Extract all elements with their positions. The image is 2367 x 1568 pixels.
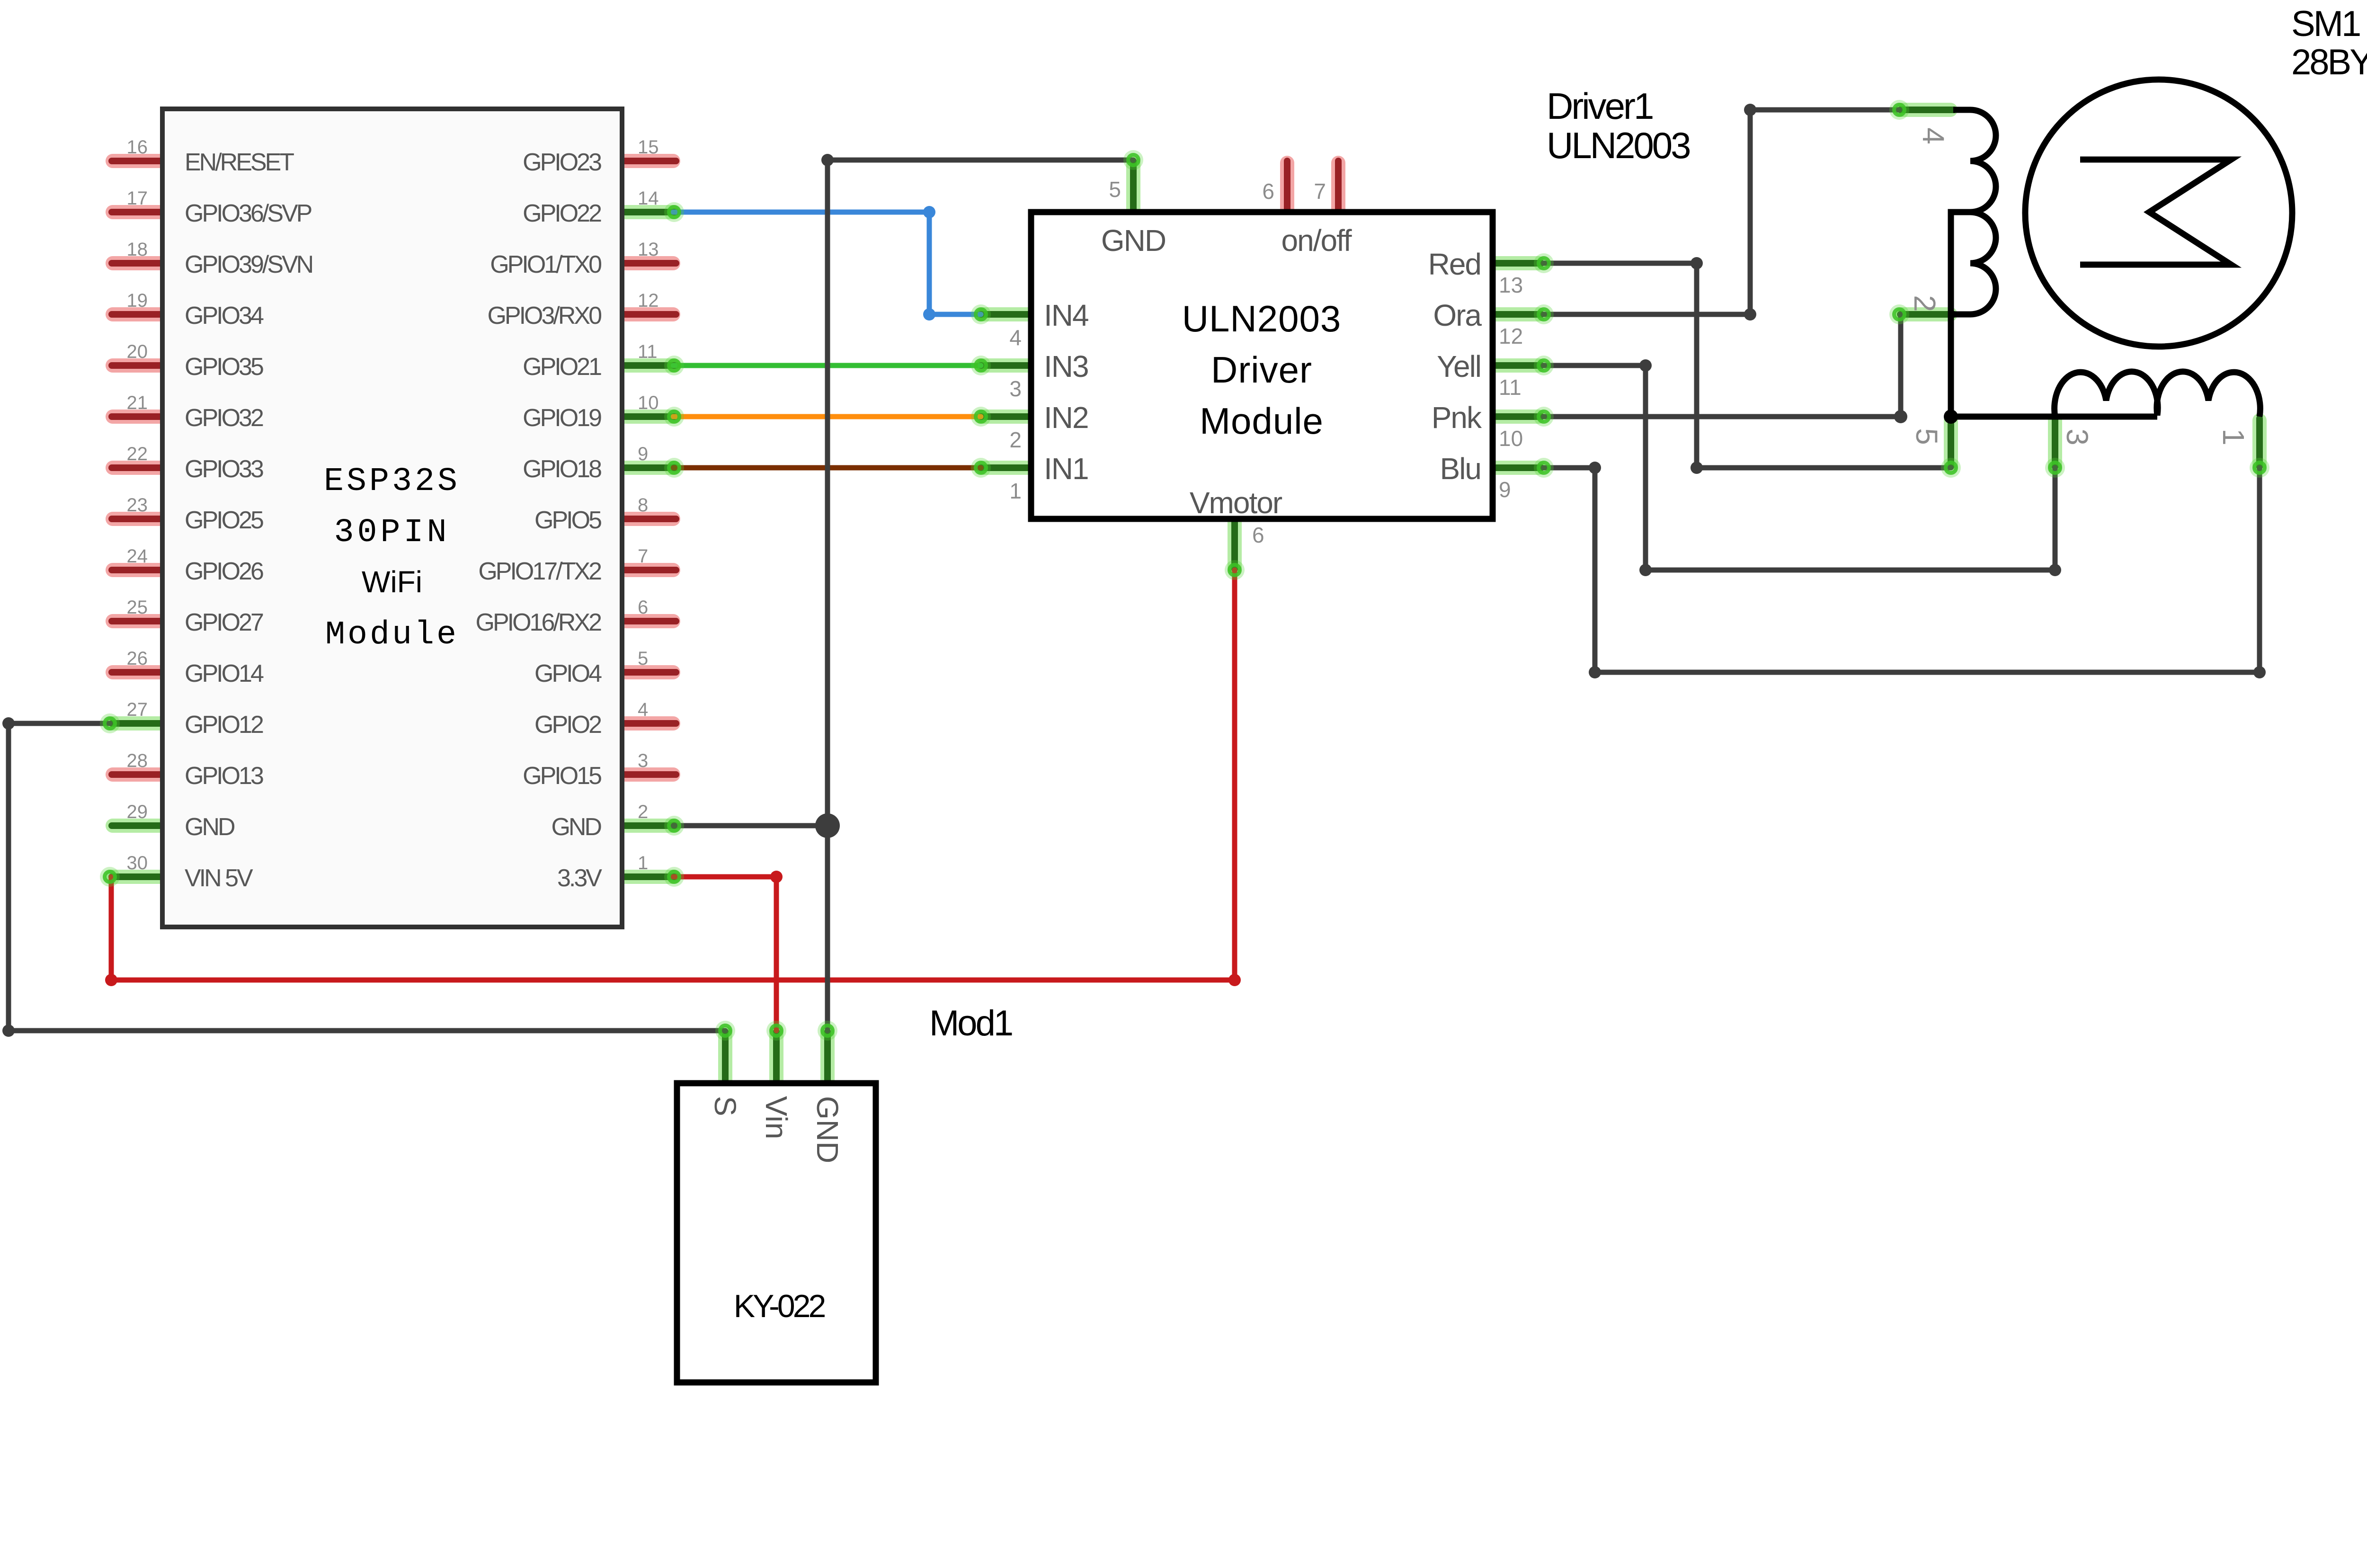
svg-text:IN1: IN1 bbox=[1044, 452, 1088, 486]
svg-text:10: 10 bbox=[1499, 426, 1523, 451]
ESP32 pin 24 GPIO26 stub bbox=[113, 563, 161, 577]
svg-text:3: 3 bbox=[1009, 376, 1022, 401]
ULN2003 pin numbers and labels bbox=[1009, 177, 1523, 547]
svg-text:11: 11 bbox=[1499, 375, 1522, 400]
ULN2003 pin 6 Vmotor stub bbox=[1228, 522, 1242, 567]
ESP32 pin 11 GPIO21 stub bbox=[624, 358, 673, 373]
svg-text:GPIO13: GPIO13 bbox=[185, 762, 263, 790]
svg-text:KY-022: KY-022 bbox=[734, 1288, 825, 1324]
wire ULN Blu(9) to motor pin 1 (gray) bbox=[1544, 462, 2266, 678]
connection point KY GND bbox=[818, 1021, 837, 1041]
motor SM1 pin 2 stub bbox=[1902, 307, 1950, 321]
svg-text:10: 10 bbox=[638, 392, 659, 413]
svg-text:GPIO14: GPIO14 bbox=[185, 660, 264, 687]
svg-text:9: 9 bbox=[1499, 477, 1511, 502]
ESP32 pin 20 GPIO35 stub bbox=[113, 358, 161, 373]
ESP32 pin 27 GPIO12 stub bbox=[113, 716, 161, 731]
svg-text:GPIO27: GPIO27 bbox=[185, 609, 263, 636]
svg-text:Red: Red bbox=[1428, 247, 1481, 281]
KY-022 pin Vin stub bbox=[769, 1033, 783, 1080]
ESP32 pin 19 GPIO34 stub bbox=[113, 307, 161, 321]
svg-text:GPIO19: GPIO19 bbox=[523, 404, 601, 432]
svg-text:SM1: SM1 bbox=[2291, 4, 2360, 44]
connection point ULN Vmotor bbox=[1225, 560, 1245, 580]
svg-text:15: 15 bbox=[638, 137, 659, 158]
connection points (green glow) bbox=[100, 100, 2269, 1041]
module Mod1 KY-022 body bbox=[677, 1083, 876, 1382]
ULN2003 pin 3 IN3 stub bbox=[984, 358, 1028, 373]
svg-text:GPIO21: GPIO21 bbox=[523, 353, 601, 381]
ESP32 pin 14 GPIO22 stub bbox=[624, 205, 673, 219]
motor pin number labels bbox=[1908, 127, 2251, 445]
svg-text:Ora: Ora bbox=[1433, 298, 1482, 332]
svg-text:GPIO39/SVN: GPIO39/SVN bbox=[185, 251, 312, 278]
ULN2003 pin stubs bbox=[981, 161, 1541, 569]
ULN2003 pin 10 Pnk stub bbox=[1496, 410, 1539, 424]
svg-text:VIN 5V: VIN 5V bbox=[185, 864, 253, 892]
motor SM1 pin 4 stub bbox=[1902, 103, 1950, 117]
connection point ULN Red bbox=[1534, 253, 1554, 273]
svg-text:IN2: IN2 bbox=[1044, 401, 1088, 435]
connection point ULN Blu bbox=[1534, 458, 1554, 478]
connection point ULN Pnk bbox=[1534, 407, 1554, 427]
svg-text:3.3V: 3.3V bbox=[557, 864, 602, 892]
svg-text:12: 12 bbox=[638, 290, 659, 311]
connection point ULN Ora bbox=[1534, 304, 1554, 324]
wire GPIO18 to IN1 (brown) bbox=[673, 465, 981, 471]
wire GPIO21 to IN3 (green) bbox=[673, 363, 981, 368]
svg-text:6: 6 bbox=[638, 597, 648, 618]
svg-text:GPIO12: GPIO12 bbox=[185, 711, 263, 739]
ESP32 pin 30 VIN 5V stub bbox=[113, 870, 161, 884]
ESP32 left pin stubs bbox=[112, 161, 165, 877]
svg-text:Module: Module bbox=[1200, 400, 1324, 442]
svg-text:GND: GND bbox=[810, 1096, 845, 1163]
svg-text:GPIO1/TX0: GPIO1/TX0 bbox=[490, 251, 601, 278]
svg-text:GPIO15: GPIO15 bbox=[523, 762, 601, 790]
svg-text:ULN2003: ULN2003 bbox=[1182, 298, 1342, 339]
svg-text:IN4: IN4 bbox=[1044, 298, 1088, 332]
svg-text:25: 25 bbox=[127, 597, 148, 618]
svg-text:Module: Module bbox=[325, 616, 459, 654]
ESP32 pin 29 GND stub bbox=[113, 819, 161, 833]
svg-text:18: 18 bbox=[127, 239, 148, 260]
ESP32 pin 7 GPIO17/TX2 stub bbox=[624, 563, 673, 577]
svg-text:30: 30 bbox=[127, 853, 148, 873]
connection point motor pin 4 bbox=[1889, 100, 1909, 120]
ESP32 pin 2 GND stub bbox=[624, 819, 673, 833]
svg-text:4: 4 bbox=[1009, 325, 1022, 350]
ESP32 pin 18 GPIO39/SVN stub bbox=[113, 256, 161, 270]
motor winding A (vertical coil) bbox=[1953, 110, 1996, 314]
ULN2003 pin 9 Blu stub bbox=[1496, 461, 1539, 475]
KY-022 pin stubs bbox=[725, 1032, 828, 1087]
connection point ULN IN1 bbox=[971, 458, 991, 478]
svg-text:7: 7 bbox=[638, 546, 648, 567]
connection point ULN IN4 bbox=[971, 304, 991, 324]
svg-text:2: 2 bbox=[638, 802, 648, 822]
ULN2003 pin 2 IN2 stub bbox=[984, 410, 1028, 424]
label ULN2003 Driver Module bbox=[1182, 298, 1342, 442]
module Driver1 ULN2003 Driver Module body bbox=[1031, 212, 1493, 519]
connection point ESP32 pin 27 bbox=[100, 713, 120, 733]
motor M glyph bbox=[2080, 160, 2231, 265]
connection point ULN Yell bbox=[1534, 356, 1554, 375]
connection point ESP32 pin 10 bbox=[664, 407, 684, 427]
wire VIN 5V to Vmotor (red) bbox=[105, 570, 1241, 986]
svg-text:GPIO35: GPIO35 bbox=[185, 353, 263, 381]
svg-text:9: 9 bbox=[638, 444, 648, 464]
svg-text:2: 2 bbox=[1908, 295, 1942, 312]
svg-text:22: 22 bbox=[127, 444, 148, 464]
svg-text:GPIO16/RX2: GPIO16/RX2 bbox=[476, 609, 602, 636]
svg-text:11: 11 bbox=[638, 341, 658, 362]
ULN2003 pin 12 Ora stub bbox=[1496, 307, 1539, 321]
motor winding B (horizontal coil) and tap baseline bbox=[1951, 372, 2260, 417]
ULN2003 pin 6 on/off stub bbox=[1280, 163, 1294, 209]
svg-text:3: 3 bbox=[638, 750, 648, 771]
svg-text:Vmotor: Vmotor bbox=[1190, 486, 1282, 520]
label Driver1 ULN2003 (annotation) bbox=[1547, 85, 1690, 166]
ESP32 pin 9 GPIO18 stub bbox=[624, 461, 673, 475]
ESP32 pin 22 GPIO33 stub bbox=[113, 461, 161, 475]
motor SM1 28BYJ-48 circle body bbox=[2025, 80, 2292, 347]
svg-text:GPIO18: GPIO18 bbox=[523, 455, 601, 483]
ULN2003 pin 1 IN1 stub bbox=[984, 461, 1028, 475]
svg-text:GPIO25: GPIO25 bbox=[185, 507, 263, 534]
svg-text:Blu: Blu bbox=[1440, 452, 1481, 486]
connection point motor pin 2 bbox=[1889, 304, 1909, 324]
wire ULN Yell(11) to motor pin 3 (gray) bbox=[1544, 359, 2061, 576]
svg-text:GPIO26: GPIO26 bbox=[185, 558, 263, 585]
svg-text:GPIO23: GPIO23 bbox=[523, 149, 601, 176]
connection point KY S bbox=[715, 1021, 735, 1041]
svg-text:IN3: IN3 bbox=[1044, 349, 1088, 383]
connection point ULN GND bbox=[1123, 150, 1143, 170]
motor center tap wire bbox=[1951, 212, 1970, 417]
KY-022 pin S stub bbox=[718, 1033, 732, 1080]
ULN2003 pin 13 Red stub bbox=[1496, 256, 1539, 270]
ESP32 pin 5 GPIO4 stub bbox=[624, 665, 673, 679]
svg-text:S: S bbox=[708, 1096, 742, 1116]
svg-text:21: 21 bbox=[127, 392, 148, 413]
svg-text:26: 26 bbox=[127, 648, 148, 669]
svg-text:Mod1: Mod1 bbox=[929, 1003, 1012, 1043]
svg-text:19: 19 bbox=[127, 290, 148, 311]
svg-text:13: 13 bbox=[1499, 273, 1523, 297]
svg-text:GND: GND bbox=[185, 813, 235, 841]
ESP32 pin 12 GPIO3/RX0 stub bbox=[624, 307, 673, 321]
ESP32 pin 13 GPIO1/TX0 stub bbox=[624, 256, 673, 270]
svg-text:EN/RESET: EN/RESET bbox=[185, 149, 294, 176]
wire GPIO22 to IN4 (blue) bbox=[673, 206, 981, 321]
junction GND net bbox=[815, 813, 840, 838]
ULN2003 pin 11 Yell stub bbox=[1496, 358, 1539, 373]
svg-text:WiFi: WiFi bbox=[362, 565, 422, 599]
svg-text:Yell: Yell bbox=[1437, 349, 1481, 383]
svg-text:4: 4 bbox=[1916, 127, 1950, 144]
svg-text:1: 1 bbox=[638, 853, 648, 873]
wire ULN Red(13) to motor pin 5 (gray) bbox=[1544, 257, 1951, 474]
svg-text:GPIO3/RX0: GPIO3/RX0 bbox=[487, 302, 601, 330]
svg-text:5: 5 bbox=[1109, 177, 1121, 202]
ULN2003 pin 7 on/off stub bbox=[1331, 163, 1345, 209]
ESP32 pin 10 GPIO19 stub bbox=[624, 410, 673, 424]
connection point KY Vin bbox=[766, 1021, 786, 1041]
ESP32 right pin stubs bbox=[620, 161, 676, 877]
KY-022 pin GND stub bbox=[820, 1033, 835, 1080]
wire ULN Pnk(10) to motor pin 2 (gray) bbox=[1544, 314, 1907, 423]
connection point motor pin 3 bbox=[2045, 458, 2065, 478]
ESP32 pin 8 GPIO5 stub bbox=[624, 512, 673, 526]
svg-text:12: 12 bbox=[1499, 324, 1523, 348]
svg-text:Driver1: Driver1 bbox=[1547, 85, 1653, 127]
svg-text:14: 14 bbox=[638, 188, 659, 209]
connection point ESP32 pin 11 bbox=[664, 356, 684, 375]
svg-text:29: 29 bbox=[127, 802, 148, 822]
svg-text:16: 16 bbox=[127, 137, 148, 158]
wire GND net: ULN GND / ESP32 GND / KY-022 GND (gray) bbox=[673, 154, 1133, 1031]
svg-text:20: 20 bbox=[127, 341, 148, 362]
svg-text:6: 6 bbox=[1262, 179, 1274, 204]
svg-text:GPIO36/SVP: GPIO36/SVP bbox=[185, 200, 311, 227]
module Mod2 ESP32S 30PIN WiFi Module body bbox=[162, 109, 622, 927]
ESP32 pin 23 GPIO25 stub bbox=[113, 512, 161, 526]
svg-text:ULN2003: ULN2003 bbox=[1547, 125, 1690, 166]
ESP32 pin 3 GPIO15 stub bbox=[624, 767, 673, 782]
svg-text:6: 6 bbox=[1252, 523, 1264, 547]
label SM1 28BYJ-48 bbox=[2291, 4, 2367, 82]
svg-text:23: 23 bbox=[127, 495, 148, 516]
ESP32 pin 4 GPIO2 stub bbox=[624, 716, 673, 731]
svg-text:Pnk: Pnk bbox=[1432, 401, 1482, 435]
svg-text:GPIO32: GPIO32 bbox=[185, 404, 263, 432]
ESP32 pin 6 GPIO16/RX2 stub bbox=[624, 614, 673, 628]
svg-text:Driver: Driver bbox=[1211, 349, 1312, 391]
ESP32 pin 16 EN/RESET stub bbox=[113, 154, 161, 168]
svg-text:GPIO2: GPIO2 bbox=[534, 711, 601, 739]
svg-text:28BYJ-48: 28BYJ-48 bbox=[2291, 42, 2367, 82]
svg-text:GND: GND bbox=[551, 813, 601, 841]
connection point ULN IN2 bbox=[971, 407, 991, 427]
connection point ESP32 pin 1 bbox=[664, 867, 684, 887]
svg-text:7: 7 bbox=[1314, 179, 1326, 204]
wire 3.3V to KY-022 Vin (red) bbox=[673, 871, 783, 1031]
motor SM1 pin 5 stub bbox=[1944, 420, 1958, 465]
ULN2003 pin 4 IN4 stub bbox=[984, 307, 1028, 321]
svg-text:27: 27 bbox=[127, 699, 148, 720]
svg-text:30PIN: 30PIN bbox=[334, 514, 450, 552]
connection point ESP32 pin 9 bbox=[664, 458, 684, 478]
junction motor pin5 / center tap bbox=[1944, 410, 1958, 424]
ULN2003 pin 5 GND stub bbox=[1126, 163, 1140, 209]
svg-text:GPIO34: GPIO34 bbox=[185, 302, 264, 330]
motor SM1 pin 3 stub bbox=[2048, 420, 2062, 465]
connection point ESP32 pin 2 bbox=[664, 816, 684, 836]
ESP32 pin 25 GPIO27 stub bbox=[113, 614, 161, 628]
svg-text:GPIO5: GPIO5 bbox=[534, 507, 601, 534]
svg-text:ESP32S: ESP32S bbox=[324, 463, 460, 500]
svg-text:4: 4 bbox=[638, 699, 648, 720]
ESP32 pin 15 GPIO23 stub bbox=[624, 154, 673, 168]
connection point motor pin 1 bbox=[2250, 458, 2269, 478]
svg-text:GPIO17/TX2: GPIO17/TX2 bbox=[478, 558, 601, 585]
ESP32 pin 26 GPIO14 stub bbox=[113, 665, 161, 679]
svg-text:on/off: on/off bbox=[1281, 223, 1352, 258]
connection point ESP32 pin 14 bbox=[664, 202, 684, 222]
svg-text:GND: GND bbox=[1101, 223, 1166, 258]
svg-text:13: 13 bbox=[638, 239, 659, 260]
motor SM1 pin 1 stub bbox=[2252, 420, 2267, 465]
wire GPIO19 to IN2 (orange) bbox=[673, 414, 981, 419]
svg-text:GPIO4: GPIO4 bbox=[534, 660, 602, 687]
svg-text:GPIO33: GPIO33 bbox=[185, 455, 263, 483]
ESP32 pin 28 GPIO13 stub bbox=[113, 767, 161, 782]
svg-text:2: 2 bbox=[1009, 428, 1022, 452]
svg-text:1: 1 bbox=[2216, 428, 2251, 445]
ESP32 pin 1 3.3V stub bbox=[624, 870, 673, 884]
svg-text:8: 8 bbox=[638, 495, 648, 516]
ESP32 pin numbers and labels bbox=[127, 137, 659, 892]
svg-text:5: 5 bbox=[1910, 428, 1944, 445]
connection point motor pin 5 bbox=[1941, 458, 1961, 478]
svg-text:24: 24 bbox=[127, 546, 148, 567]
svg-text:17: 17 bbox=[127, 188, 148, 209]
svg-text:Vin: Vin bbox=[759, 1096, 793, 1139]
svg-text:GPIO22: GPIO22 bbox=[523, 200, 601, 227]
connection point ULN IN3 bbox=[971, 356, 991, 375]
ESP32 pin 21 GPIO32 stub bbox=[113, 410, 161, 424]
svg-text:3: 3 bbox=[2060, 428, 2094, 445]
KY-022 pin labels S Vin GND bbox=[708, 1096, 845, 1163]
svg-text:28: 28 bbox=[127, 750, 148, 771]
svg-text:5: 5 bbox=[638, 648, 648, 669]
wire GPIO12 to KY-022 S (gray) bbox=[2, 717, 725, 1037]
wire ULN Ora(12) to motor pin 4 (gray) bbox=[1544, 104, 1899, 321]
motor SM1 pin stubs bbox=[1900, 110, 2260, 467]
svg-text:1: 1 bbox=[1009, 479, 1022, 503]
connection point ESP32 pin 30 bbox=[100, 867, 120, 887]
ESP32 pin 17 GPIO36/SVP stub bbox=[113, 205, 161, 219]
label ESP32S 30PIN WiFi Module bbox=[324, 463, 460, 654]
